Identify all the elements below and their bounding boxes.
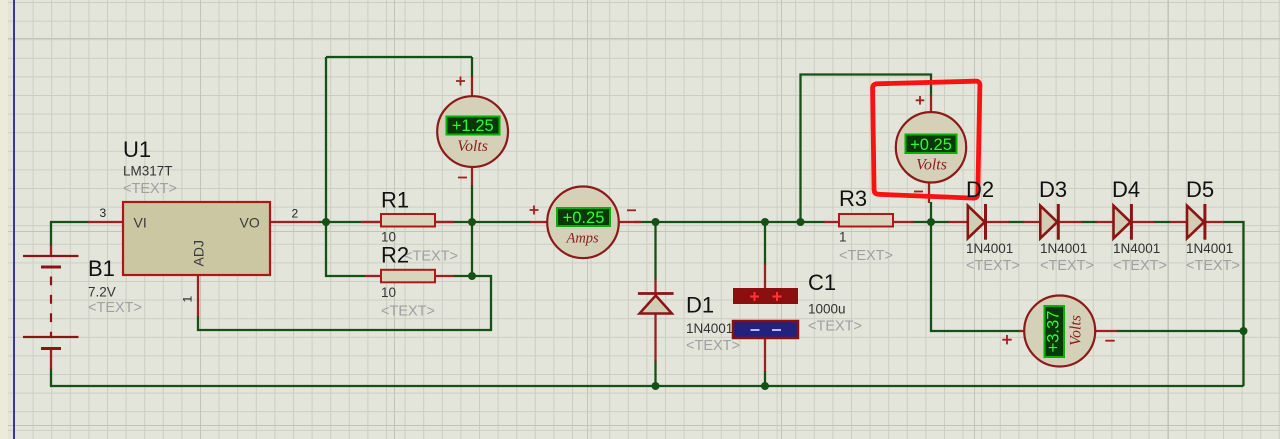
svg-text:+0.25: +0.25 bbox=[910, 136, 952, 154]
svg-text:<TEXT>: <TEXT> bbox=[1040, 258, 1094, 274]
svg-text:1N4001: 1N4001 bbox=[1186, 241, 1233, 256]
svg-text:10: 10 bbox=[381, 285, 396, 300]
svg-text:<TEXT>: <TEXT> bbox=[1186, 258, 1240, 274]
svg-text:1N4001: 1N4001 bbox=[1113, 241, 1160, 256]
svg-text:1N4001: 1N4001 bbox=[1040, 241, 1087, 256]
svg-text:3: 3 bbox=[100, 206, 107, 220]
svg-text:Volts: Volts bbox=[1067, 315, 1084, 346]
svg-text:B1: B1 bbox=[88, 256, 115, 281]
svg-text:Volts: Volts bbox=[916, 156, 947, 173]
svg-text:<TEXT>: <TEXT> bbox=[88, 300, 142, 316]
svg-text:1N4001: 1N4001 bbox=[686, 321, 733, 336]
svg-text:C1: C1 bbox=[808, 270, 836, 295]
svg-text:D1: D1 bbox=[686, 293, 714, 318]
svg-text:Amps: Amps bbox=[565, 231, 599, 247]
svg-text:+1.25: +1.25 bbox=[452, 117, 494, 135]
svg-text:LM317T: LM317T bbox=[123, 164, 173, 179]
svg-text:1000u: 1000u bbox=[808, 302, 846, 317]
svg-text:R1: R1 bbox=[381, 188, 409, 213]
svg-text:D5: D5 bbox=[1186, 177, 1214, 202]
svg-text:+0.25: +0.25 bbox=[563, 209, 605, 227]
svg-text:2: 2 bbox=[292, 207, 299, 221]
svg-text:R2: R2 bbox=[381, 243, 409, 268]
svg-text:<TEXT>: <TEXT> bbox=[123, 181, 177, 197]
svg-text:U1: U1 bbox=[123, 137, 151, 162]
svg-text:<TEXT>: <TEXT> bbox=[966, 258, 1020, 274]
svg-text:D4: D4 bbox=[1112, 177, 1140, 202]
svg-text:D2: D2 bbox=[966, 177, 994, 202]
svg-text:VO: VO bbox=[240, 215, 260, 231]
svg-text:Volts: Volts bbox=[457, 138, 488, 155]
svg-text:D3: D3 bbox=[1039, 177, 1067, 202]
svg-text:1: 1 bbox=[181, 296, 195, 303]
svg-text:VI: VI bbox=[134, 215, 147, 231]
svg-text:<TEXT>: <TEXT> bbox=[1113, 258, 1167, 274]
svg-text:R3: R3 bbox=[839, 186, 867, 211]
svg-text:<TEXT>: <TEXT> bbox=[839, 248, 893, 264]
svg-text:<TEXT>: <TEXT> bbox=[808, 319, 862, 335]
svg-text:1N4001: 1N4001 bbox=[966, 241, 1013, 256]
svg-text:ADJ: ADJ bbox=[191, 240, 207, 266]
svg-text:+3.37: +3.37 bbox=[1045, 311, 1063, 353]
svg-text:7.2V: 7.2V bbox=[88, 285, 116, 300]
svg-text:<TEXT>: <TEXT> bbox=[686, 338, 740, 354]
svg-text:<TEXT>: <TEXT> bbox=[381, 304, 435, 320]
svg-text:<TEXT>: <TEXT> bbox=[404, 249, 458, 265]
svg-text:1: 1 bbox=[839, 230, 847, 245]
